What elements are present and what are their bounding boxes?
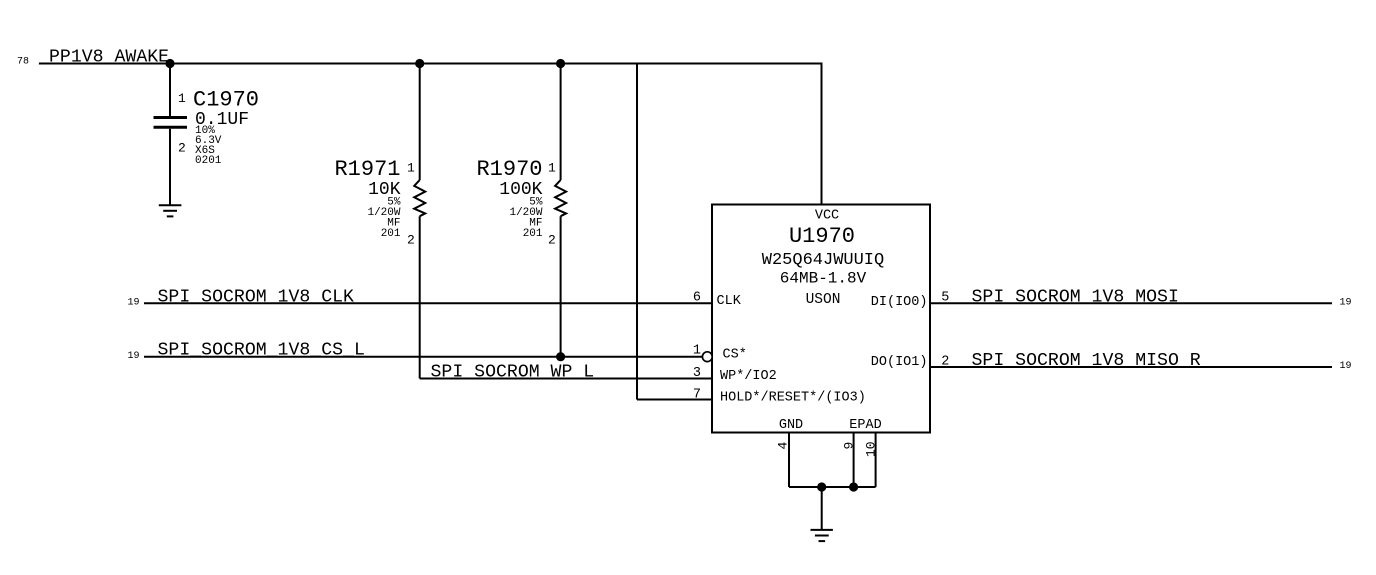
svg-text:2: 2 bbox=[548, 233, 556, 248]
svg-text:6: 6 bbox=[693, 290, 701, 305]
svg-text:U1970: U1970 bbox=[789, 224, 855, 249]
svg-text:GND: GND bbox=[779, 418, 803, 433]
svg-text:USON: USON bbox=[806, 292, 841, 308]
svg-text:5: 5 bbox=[941, 291, 949, 306]
svg-text:4: 4 bbox=[776, 442, 791, 450]
svg-text:HOLD*/RESET*/(IO3): HOLD*/RESET*/(IO3) bbox=[720, 390, 866, 405]
svg-text:0201: 0201 bbox=[195, 155, 222, 167]
svg-text:19: 19 bbox=[1340, 361, 1352, 372]
svg-text:DI(IO0): DI(IO0) bbox=[871, 295, 928, 310]
svg-text:2: 2 bbox=[941, 354, 949, 369]
svg-text:7: 7 bbox=[693, 388, 701, 403]
svg-text:1: 1 bbox=[548, 161, 556, 176]
svg-text:SPI_SOCROM_1V8_CS_L: SPI_SOCROM_1V8_CS_L bbox=[158, 341, 365, 361]
svg-text:SPI_SOCROM_WP_L: SPI_SOCROM_WP_L bbox=[431, 363, 595, 383]
svg-text:SPI_SOCROM_1V8_MISO_R: SPI_SOCROM_1V8_MISO_R bbox=[972, 351, 1201, 371]
svg-text:19: 19 bbox=[128, 351, 140, 362]
svg-text:C1970: C1970 bbox=[193, 88, 259, 113]
svg-text:CS*: CS* bbox=[723, 347, 747, 362]
svg-text:R1970: R1970 bbox=[476, 157, 542, 182]
svg-text:19: 19 bbox=[1340, 298, 1352, 309]
svg-text:10: 10 bbox=[864, 441, 879, 457]
svg-text:3: 3 bbox=[693, 366, 701, 381]
svg-text:VCC: VCC bbox=[815, 209, 839, 224]
svg-text:EPAD: EPAD bbox=[849, 418, 881, 433]
svg-text:201: 201 bbox=[523, 228, 543, 240]
svg-text:WP*/IO2: WP*/IO2 bbox=[720, 369, 777, 384]
svg-text:1: 1 bbox=[407, 161, 415, 176]
svg-text:64MB-1.8V: 64MB-1.8V bbox=[780, 270, 867, 288]
svg-text:CLK: CLK bbox=[717, 294, 742, 309]
svg-text:1: 1 bbox=[693, 344, 701, 359]
svg-text:1: 1 bbox=[178, 91, 186, 106]
svg-text:19: 19 bbox=[128, 298, 140, 309]
svg-text:SPI_SOCROM_1V8_CLK: SPI_SOCROM_1V8_CLK bbox=[158, 287, 355, 307]
svg-text:2: 2 bbox=[178, 141, 186, 156]
svg-text:78: 78 bbox=[17, 57, 29, 68]
svg-text:W25Q64JWUUIQ: W25Q64JWUUIQ bbox=[762, 251, 884, 270]
svg-text:9: 9 bbox=[842, 442, 857, 450]
svg-text:R1971: R1971 bbox=[334, 157, 400, 182]
svg-text:DO(IO1): DO(IO1) bbox=[871, 355, 928, 370]
svg-text:SPI_SOCROM_1V8_MOSI: SPI_SOCROM_1V8_MOSI bbox=[972, 287, 1179, 307]
svg-text:201: 201 bbox=[381, 228, 401, 240]
svg-text:2: 2 bbox=[407, 233, 415, 248]
svg-text:PP1V8_AWAKE: PP1V8_AWAKE bbox=[49, 47, 169, 67]
